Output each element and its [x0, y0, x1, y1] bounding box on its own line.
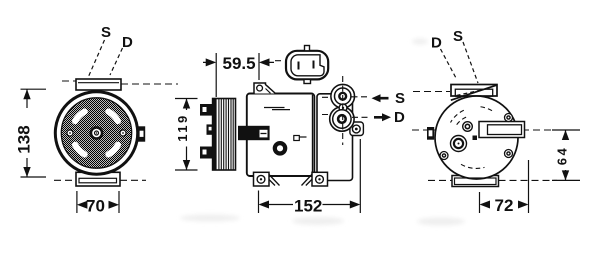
svg-text:D: D — [394, 109, 405, 126]
suction port — [335, 88, 351, 104]
bolt bottom-left — [440, 152, 448, 160]
pulley textured disc — [61, 98, 131, 168]
main circle — [435, 96, 518, 179]
hub pin — [96, 132, 97, 133]
S arrow (suction) — [372, 94, 389, 102]
dim 64 bottom ext — [552, 179, 580, 181]
bolt bottom-right — [505, 150, 513, 158]
svg-text:64: 64 — [555, 146, 570, 165]
slot NW — [75, 112, 85, 122]
horizontal centerline — [412, 129, 553, 131]
hub outer ring — [91, 127, 102, 138]
wiring block window — [260, 130, 268, 138]
hub inner ring — [95, 131, 99, 135]
faint scan smudges — [180, 39, 465, 226]
top bracket inner line — [78, 82, 119, 84]
body label lines — [264, 108, 290, 110]
body top-left lug — [254, 83, 276, 94]
bottom bracket inner rect — [79, 178, 117, 183]
dimension 70 extension lines — [77, 191, 119, 213]
left rivet — [67, 130, 73, 136]
label D leader — [110, 48, 123, 75]
centerline bottom bracket — [54, 179, 146, 181]
rear connector inner — [488, 125, 522, 135]
connector centerline dash — [275, 60, 281, 62]
dimension 138 extension ticks — [21, 89, 47, 177]
svg-text:70: 70 — [86, 197, 105, 216]
top bracket — [451, 85, 497, 97]
D leader — [441, 49, 457, 78]
slot SE — [108, 145, 118, 155]
bottom-left lug — [254, 172, 270, 186]
discharge port — [333, 110, 351, 128]
dim 152 line — [268, 204, 352, 206]
svg-text:S: S — [453, 28, 463, 45]
port bolt lug — [350, 122, 364, 136]
ports flange (figure 8) — [331, 84, 355, 108]
small black square — [473, 136, 478, 141]
dim 59.5 left ext — [215, 53, 217, 97]
bolt top middle — [463, 122, 473, 132]
body top-left lug hole — [257, 85, 263, 91]
body top-left lug hatch — [266, 86, 271, 93]
svg-text:152: 152 — [294, 197, 322, 216]
D arrow (discharge) — [374, 113, 391, 121]
svg-text:S: S — [395, 90, 405, 107]
slot NE — [108, 112, 118, 122]
dim 64 line — [565, 130, 567, 180]
suction centerline — [322, 96, 368, 99]
pulley front band — [213, 99, 217, 171]
label S leader — [89, 40, 105, 77]
bracket centerline — [413, 91, 450, 93]
pulley side ribbed drum — [213, 99, 236, 171]
dim 59.5 right ext — [258, 53, 260, 80]
dim 152 right ext — [359, 139, 361, 213]
connector pin right — [313, 61, 315, 69]
compressor body — [247, 94, 314, 177]
dim 72 left ext — [479, 192, 481, 213]
svg-text:72: 72 — [495, 196, 514, 215]
dim 64 top ext — [552, 129, 580, 131]
S leader — [463, 42, 478, 83]
bottom centerline — [428, 179, 557, 181]
dimension 70 arrows — [77, 201, 119, 209]
dim 119 ticks — [175, 99, 198, 171]
svg-text:138: 138 — [15, 125, 34, 153]
left tab — [427, 127, 434, 140]
port vertical centerline — [342, 76, 344, 145]
bottom-right lug — [312, 172, 328, 186]
bottom bracket inner rect — [455, 178, 497, 185]
connector bottom tab — [304, 79, 311, 83]
electrical connector oval — [286, 51, 328, 80]
right rivet — [120, 130, 126, 136]
bottom mounting bracket — [76, 172, 120, 186]
hub boss — [451, 136, 467, 152]
pulley grooves — [219, 99, 233, 170]
svg-text:119: 119 — [175, 113, 190, 141]
right tab window — [140, 131, 144, 137]
svg-text:59.5: 59.5 — [223, 54, 256, 73]
centerline top bracket — [62, 81, 178, 84]
body boss — [275, 143, 285, 153]
rear head — [317, 94, 353, 181]
top mounting bracket — [76, 79, 121, 90]
dim 59.5 arrows+tails — [203, 61, 274, 63]
slot SW — [75, 145, 85, 155]
dim 152 left ext — [258, 191, 260, 214]
rear connector outer — [479, 122, 525, 138]
svg-text:D: D — [431, 35, 442, 52]
bolt top-right — [505, 114, 513, 122]
middle bolt — [339, 104, 347, 112]
connector pin left — [298, 62, 300, 70]
dimension 138 line+arrows — [26, 89, 28, 177]
joint line — [311, 95, 313, 175]
pulley outer circle — [55, 92, 137, 174]
bottom bracket — [452, 176, 499, 187]
discharge centerline — [322, 115, 368, 118]
dim 72 arrows — [480, 201, 529, 209]
small line detail — [299, 136, 306, 138]
dim 72 right ext — [528, 160, 530, 213]
svg-text:S: S — [101, 24, 111, 41]
connector inner outline — [291, 55, 324, 76]
svg-text:D: D — [122, 34, 133, 51]
dashed arcs — [451, 107, 493, 169]
small square detail — [294, 136, 300, 141]
clutch wiring block — [238, 126, 270, 140]
pulley side: left tabs — [200, 104, 213, 159]
connector top tab — [305, 46, 310, 51]
right side tab — [138, 126, 146, 141]
